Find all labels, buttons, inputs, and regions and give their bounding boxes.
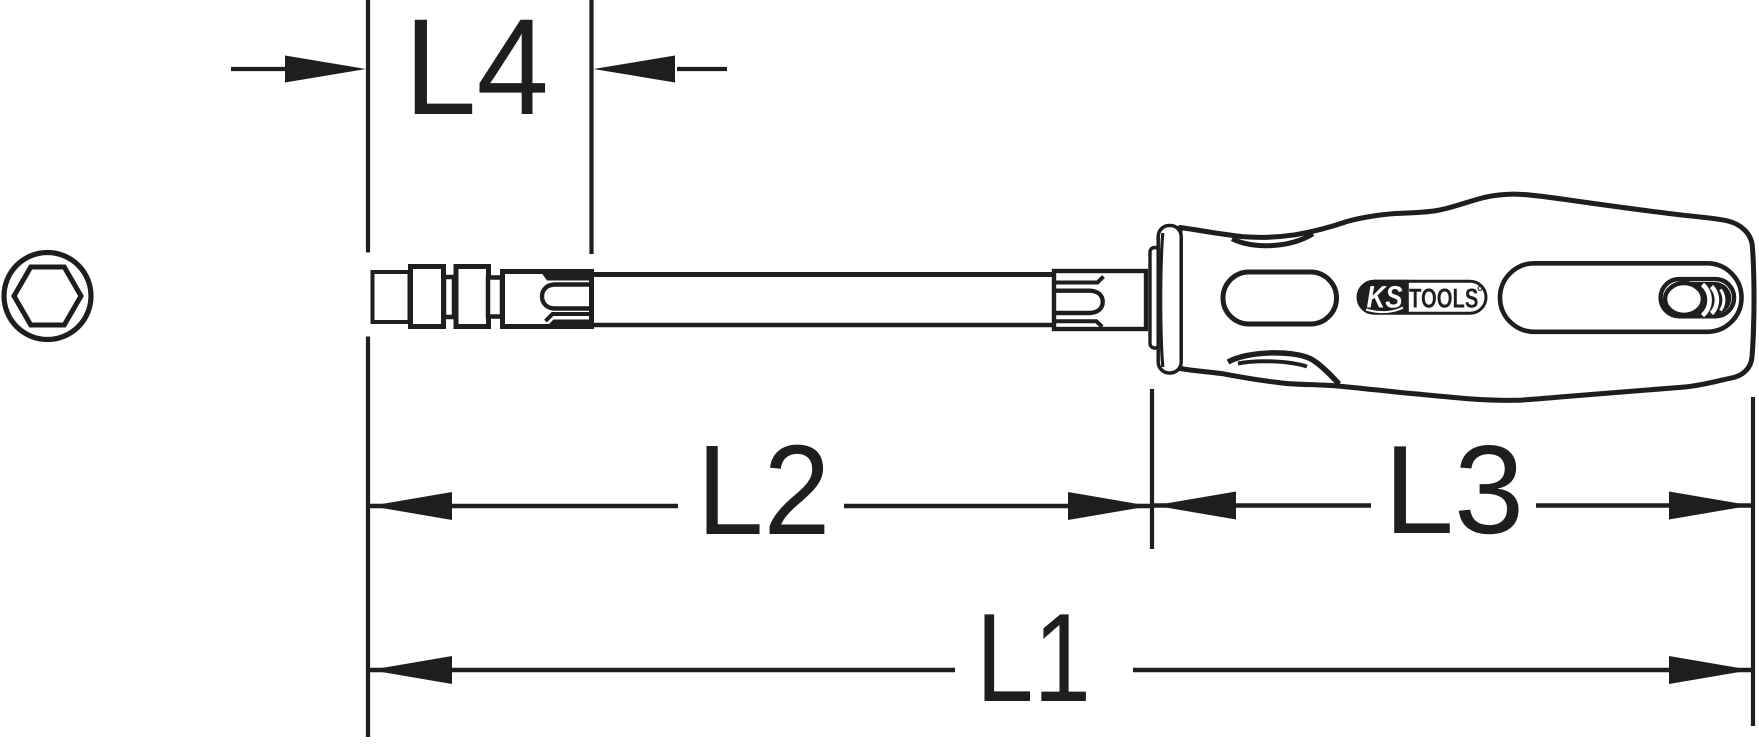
hex bit end view: hexagon [14,267,81,325]
dimension L3 left arrowhead [1154,492,1236,520]
KS TOOLS badge registered mark [1478,287,1482,291]
handle end white arc sliver 2 [1712,287,1717,314]
bolster facet line top [1056,277,1104,283]
bit holder bottom band [546,320,592,328]
ferrule small collar [1150,248,1160,349]
extension line L4 right [589,0,593,254]
KS TOOLS badge pill [1358,281,1486,313]
handle end dark block [1678,282,1731,314]
bit groove neck 1 [444,277,454,317]
handle end cap big stadium [1500,263,1742,332]
extension line middle (L2/L3 boundary) [1150,389,1154,549]
bit ring 1 [411,267,444,327]
ferrule collar inner contour line [1161,233,1163,367]
dimension L2 line left [370,504,678,508]
extension line left (L4/L2/L1 origin) upper segment [366,0,370,253]
bit tip rectangle [373,272,410,322]
dimension L1 line right [1133,668,1751,672]
dimension L2 left arrowhead [370,492,452,520]
bolster socket bullet [1056,291,1103,313]
handle end small stadium [1661,279,1735,316]
handle bottom groove crescent [1228,353,1339,384]
dimension L2 line right [844,504,1150,508]
bit groove neck 2 [488,278,502,317]
dimension L1 left arrowhead [370,656,452,684]
dimension L3 right arrowhead [1669,492,1751,520]
handle top groove crescent [1232,234,1313,246]
dimension L1 line left [370,668,955,672]
extension line right end [1751,397,1755,726]
handle front oval hole [1223,272,1337,324]
handle end ring [1665,283,1703,315]
bit holder lower line [546,314,592,321]
dimension L3 line left [1154,503,1371,507]
dimension L1 right arrowhead [1669,656,1751,684]
ferrule big collar [1158,226,1181,374]
KS TOOLS badge left dark half [1357,280,1409,314]
handle end white arc sliver 1 [1703,285,1710,316]
shaft top line [594,272,1052,277]
shaft bottom line [594,323,1052,328]
svg-text:TOOLS: TOOLS [1409,282,1478,313]
bolster hex section body [1054,271,1146,329]
bit ring 2 [456,267,489,327]
KS script swash [1366,308,1403,313]
dimension L3 line right [1536,503,1751,507]
dimension L4 right tail [677,67,727,71]
bolster facet line bottom [1056,321,1102,327]
handle end white arc sliver 3 [1721,290,1724,311]
dimension L2 right arrowhead [1068,492,1150,520]
extension line left lower segment [366,337,370,738]
dimension L4 left tail [231,67,288,71]
handle body outline [1180,194,1754,400]
bit holder body [503,272,592,327]
hex bit end view: outer circle [4,253,91,340]
bit holder socket bullet [542,285,592,309]
dimension L4 left arrowhead [285,56,366,83]
bit holder chamfer band [541,272,592,281]
svg-text:L4: L4 [404,0,549,144]
dimension L4 right arrowhead [594,56,676,83]
svg-text:L3: L3 [1384,419,1524,560]
svg-text:L2: L2 [697,419,831,562]
svg-text:L1: L1 [976,587,1091,728]
